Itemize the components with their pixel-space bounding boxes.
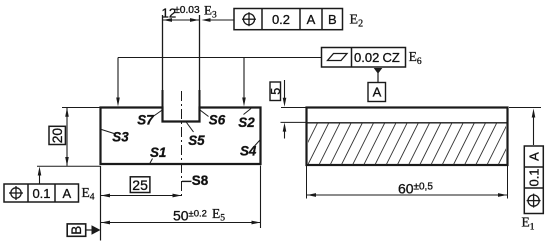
svg-text:0.2: 0.2 xyxy=(272,12,290,27)
svg-text:A: A xyxy=(307,12,316,27)
svg-text:±0.03: ±0.03 xyxy=(174,5,200,16)
svg-text:B: B xyxy=(69,226,84,235)
svg-text:S5: S5 xyxy=(188,133,205,148)
svg-text:CZ: CZ xyxy=(383,50,400,65)
svg-text:A: A xyxy=(527,152,542,161)
svg-text:50: 50 xyxy=(173,208,189,224)
svg-text:0.1: 0.1 xyxy=(527,168,542,186)
svg-text:60: 60 xyxy=(398,181,414,197)
svg-text:0.02: 0.02 xyxy=(354,50,379,65)
svg-text:±0,5: ±0,5 xyxy=(414,182,434,193)
svg-text:25: 25 xyxy=(132,177,148,193)
svg-text:0.1: 0.1 xyxy=(32,186,50,201)
svg-text:B: B xyxy=(328,12,337,27)
svg-text:S6: S6 xyxy=(209,113,226,128)
svg-text:5: 5 xyxy=(269,88,283,95)
svg-text:S3: S3 xyxy=(112,129,129,144)
svg-text:20: 20 xyxy=(50,128,65,144)
svg-text:S8: S8 xyxy=(192,173,209,188)
svg-text:S7: S7 xyxy=(137,113,154,128)
svg-text:A: A xyxy=(373,84,382,99)
svg-text:S1: S1 xyxy=(150,145,166,160)
svg-text:±0.2: ±0.2 xyxy=(189,209,207,220)
svg-text:S2: S2 xyxy=(238,115,255,130)
svg-text:A: A xyxy=(62,186,71,201)
